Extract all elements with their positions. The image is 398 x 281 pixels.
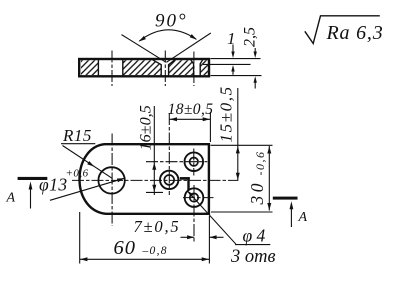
plan plate outline bbox=[80, 144, 209, 214]
dimension 1 line bbox=[232, 45, 234, 75]
dimension 7 line left stub bbox=[181, 236, 195, 238]
extension line bottom edge right bbox=[211, 211, 273, 213]
svg-text:16±0,5: 16±0,5 bbox=[137, 105, 155, 150]
svg-text:3 отв: 3 отв bbox=[230, 247, 276, 267]
R15 leader line bbox=[63, 146, 113, 179]
dimension 1 arrows bbox=[231, 52, 234, 59]
extension line 60 left bbox=[79, 212, 81, 264]
center hole countersink chamfer bbox=[153, 60, 175, 76]
dimension 2.5 line bbox=[254, 48, 256, 89]
dimension 15 arrows bbox=[236, 146, 240, 153]
dimension 60 arrows bbox=[80, 257, 87, 261]
big hole walls in section bbox=[98, 60, 122, 77]
hatch between center hole and right hole bbox=[169, 60, 194, 75]
horizontal centerline bottom hole bbox=[183, 197, 214, 199]
90 degree angle legs bbox=[122, 33, 211, 62]
R15 arrowhead bbox=[87, 161, 94, 167]
dimension 18 arrows bbox=[170, 117, 177, 121]
dimension 30 arrows bbox=[267, 146, 271, 153]
center hole inner circle d4 bbox=[164, 175, 174, 185]
section mark right arrow bbox=[290, 209, 292, 228]
svg-text:A: A bbox=[298, 210, 308, 225]
extension line bottom surface bbox=[211, 75, 262, 77]
hatch left block bbox=[81, 60, 98, 75]
section mark left arrow bbox=[30, 189, 32, 209]
90 degree dimension arc bbox=[139, 30, 196, 41]
dimension 15 line bbox=[237, 88, 239, 181]
dimension 30 line bbox=[268, 146, 270, 211]
horizontal centerline top hole / 16 extension bbox=[146, 161, 207, 163]
dimension 16 line bbox=[153, 106, 155, 195]
vertical centerline bottom hole / 7 extension bbox=[193, 185, 195, 244]
section mark left bar bbox=[18, 177, 48, 180]
dimension 18 line bbox=[169, 118, 210, 120]
dimension 60 line bbox=[80, 258, 210, 260]
right hole countersink chamfer bbox=[191, 60, 203, 76]
top hole outer countersink circle bbox=[185, 152, 204, 171]
d13 leader line bbox=[50, 178, 125, 200]
dimension 2.5 arrows bbox=[254, 52, 257, 59]
arc left arrowhead bbox=[139, 36, 146, 42]
svg-text:60: 60 bbox=[114, 237, 137, 259]
hatch right block bbox=[200, 60, 208, 75]
center hole outer countersink circle bbox=[160, 171, 178, 189]
horizontal main centerline bbox=[72, 179, 238, 181]
extension line 60 right bbox=[208, 216, 210, 264]
dimension 16 arrows bbox=[152, 163, 156, 170]
centerline big hole section bbox=[111, 51, 113, 87]
svg-text:Ra 6,3: Ra 6,3 bbox=[326, 22, 384, 44]
section step mark vertical bbox=[187, 177, 189, 190]
extension line top edge right bbox=[211, 144, 273, 146]
d4 leader arrowhead bbox=[187, 190, 194, 197]
vertical centerline big hole bbox=[111, 134, 113, 227]
svg-text:–0,8: –0,8 bbox=[142, 245, 168, 257]
vertical centerline top hole bbox=[193, 149, 195, 176]
extension line 16 lower bbox=[146, 191, 163, 193]
svg-text:7±0,5: 7±0,5 bbox=[134, 217, 181, 236]
bottom hole outer countersink circle bbox=[185, 188, 204, 207]
svg-text:1: 1 bbox=[227, 29, 236, 48]
extension line countersink depth bbox=[203, 63, 251, 65]
svg-text:18±0,5: 18±0,5 bbox=[168, 101, 214, 118]
centerline right hole section bbox=[193, 52, 195, 87]
dimension 7 arrows bbox=[187, 235, 194, 239]
vertical centerline center hole / 18 extension bbox=[168, 113, 170, 195]
hatch between big hole and center hole bbox=[124, 60, 162, 75]
svg-text:R15: R15 bbox=[62, 126, 92, 145]
bottom hole inner circle d4 bbox=[190, 193, 198, 201]
svg-text:90°: 90° bbox=[155, 11, 188, 32]
svg-text:φ 4: φ 4 bbox=[243, 226, 266, 246]
centerline center hole section bbox=[164, 51, 166, 87]
section A-A plate outline bbox=[79, 59, 209, 76]
big hole circle d13 bbox=[98, 167, 124, 193]
extension line 18 right / right edge extension bbox=[209, 112, 211, 142]
svg-text:2,5: 2,5 bbox=[242, 27, 259, 47]
arc right arrowhead bbox=[190, 34, 197, 40]
surface roughness symbol bbox=[305, 16, 380, 44]
extension line top surface bbox=[211, 58, 261, 60]
section step mark horizontal bbox=[180, 177, 190, 180]
top hole inner circle d4 bbox=[190, 158, 198, 166]
svg-text:15±0,5: 15±0,5 bbox=[216, 85, 235, 142]
d4 leader line bbox=[188, 191, 270, 244]
dimension 7 line right stub bbox=[209, 236, 223, 238]
d13 arrowhead bbox=[117, 178, 125, 182]
section mark right bar bbox=[273, 197, 298, 200]
svg-text:+0,6: +0,6 bbox=[66, 167, 89, 179]
svg-text:A: A bbox=[6, 191, 16, 206]
